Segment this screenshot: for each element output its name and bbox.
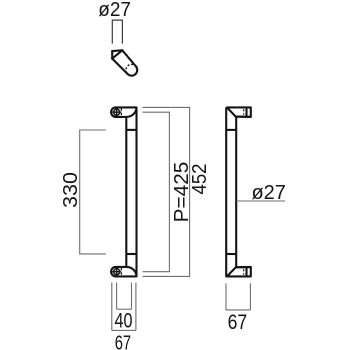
- front bottom joint line: [126, 253, 136, 255]
- screw bottom hidden dash: [120, 268, 122, 276]
- side bottom arm top edge: [236, 266, 251, 268]
- grip neck left edge: [111, 51, 113, 59]
- side outline: [226, 107, 251, 276]
- dimension 40 line: [117, 308, 132, 310]
- dimension 67 side extension lines: [226, 283, 250, 310]
- grip neck top edge: [112, 49, 122, 52]
- screw top hidden dash: [120, 108, 122, 116]
- front top fillet: [126, 107, 136, 117]
- side flange bottom inner edge: [245, 267, 247, 277]
- dia27 side leader line: [236, 200, 285, 202]
- grip upper edge: [122, 50, 135, 66]
- dimension 330 line: [80, 130, 106, 254]
- side bottom joint line: [226, 253, 236, 255]
- dimension 452 line: [143, 107, 190, 276]
- svg-text:67: 67: [228, 310, 248, 334]
- grip end cap arc: [128, 66, 138, 76]
- svg-text:67: 67: [115, 331, 131, 350]
- stem rectangle (thin): [112, 20, 122, 43]
- svg-text:ø27: ø27: [251, 182, 285, 204]
- side bottom hidden dash: [243, 269, 245, 274]
- screw top: [112, 108, 121, 117]
- dimension 67 front extension lines: [112, 283, 136, 331]
- grip cylinder at 45deg: [112, 50, 137, 75]
- dimension P=425 line: [143, 112, 170, 272]
- grip lower edge: [112, 59, 127, 74]
- front outline: [111, 107, 136, 276]
- grip chamfer diagonal: [112, 50, 122, 58]
- front bottom fillet: [126, 267, 136, 277]
- grip hidden arc dashed: [126, 64, 136, 74]
- dimension 67 front line: [112, 329, 136, 331]
- side top arm bottom edge: [236, 116, 251, 118]
- screw bottom: [112, 267, 121, 276]
- svg-text:ø27: ø27: [98, 0, 131, 21]
- svg-text:330: 330: [60, 172, 82, 208]
- side top hidden dash: [243, 109, 245, 114]
- svg-text:452: 452: [190, 163, 212, 194]
- dimension 40 extension lines: [117, 283, 132, 310]
- svg-text:40: 40: [115, 308, 133, 332]
- side flange top inner edge: [245, 107, 247, 117]
- front top joint line: [126, 129, 136, 131]
- dimension 67 side line: [226, 309, 250, 311]
- side top joint line: [226, 129, 236, 131]
